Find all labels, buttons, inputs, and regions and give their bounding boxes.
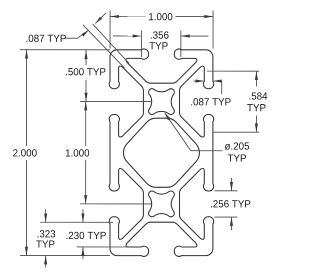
dimension .356 TYP slot root width [113,30,208,57]
lower center bore hole [149,191,175,217]
dimension .323 TYP slot depth [36,209,55,267]
dimension .230 TYP slot depth to wall [66,209,105,259]
extension lines slot depth [40,222,131,247]
left lower T-slot void [109,168,143,239]
center line lower core [80,203,151,205]
right lower T-slot void [180,168,214,239]
dimension .500 TYP end to slot center [20,50,110,102]
upper center bore hole [149,89,175,115]
center line upper core [80,101,152,103]
dimension .256 TYP slot opening [211,178,250,230]
outer boundary [110,50,141,57]
right upper T-slot void [180,66,214,137]
dimension 1.000 overall width (top) [110,10,213,48]
dimension diameter .205 TYP center bore leader [164,112,249,161]
central octagonal cavity [123,118,199,187]
bottom T-slot void [126,222,197,256]
dimension .087 TYP wall thickness (right) [188,79,232,107]
top T-slot void [126,49,197,83]
dimension 1.000 core spacing [66,102,89,204]
dimension .087 TYP web thickness (top-left) [26,13,129,68]
dimension 2.000 overall height [13,50,110,256]
dimension .584 TYP slot span [207,71,267,132]
left upper T-slot void [109,66,143,137]
